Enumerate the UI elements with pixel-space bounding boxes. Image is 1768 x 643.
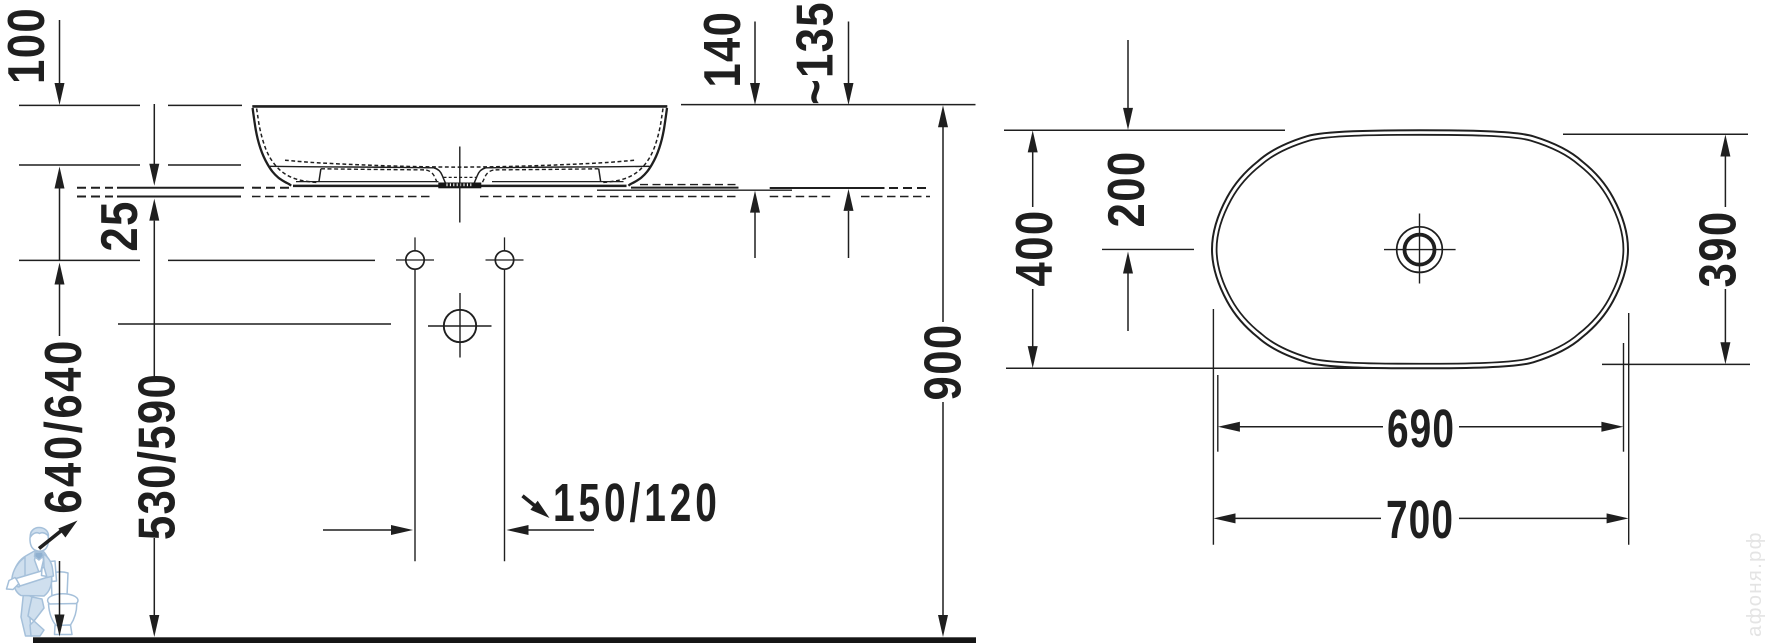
plan drain crosshair <box>1384 249 1456 251</box>
plan view basin outer outline <box>1212 130 1628 368</box>
countertop top surface left <box>117 187 244 189</box>
dimension 140 <box>754 22 756 84</box>
dimension 200 reference line <box>1102 248 1194 250</box>
countertop top surface right <box>631 187 739 189</box>
basin outer wall left <box>253 108 292 186</box>
svg-text:900: 900 <box>915 324 972 401</box>
countertop bottom surface left <box>117 196 241 198</box>
svg-text:25: 25 <box>92 200 149 251</box>
basin inner wall right (hidden) <box>602 109 663 183</box>
faucet holes centerline datum <box>19 259 140 261</box>
basin top rim edge <box>252 105 667 108</box>
plan bottom reference line <box>1006 367 1395 369</box>
basin inner wall left (hidden) <box>257 109 318 183</box>
faucet hole extension left <box>414 269 416 561</box>
drain hole front view <box>444 310 476 342</box>
dimension 25 <box>153 104 155 165</box>
plan view basin inner rim <box>1217 135 1624 364</box>
svg-text:530/590: 530/590 <box>129 373 186 540</box>
svg-text:640/640: 640/640 <box>36 338 93 514</box>
dimension 530/590 <box>149 199 159 221</box>
basin interior bottom surface (hidden) <box>285 160 635 167</box>
drain recess step left (visible) <box>434 168 445 183</box>
svg-text:140: 140 <box>695 11 752 88</box>
foot front edge left <box>319 169 321 182</box>
plan drain outer circle <box>1397 227 1443 273</box>
faucet hole right <box>495 251 513 269</box>
dimension 690 extension lines <box>1217 375 1219 452</box>
dimension 100 <box>59 20 61 85</box>
dimension 150/120 <box>323 529 392 531</box>
faucet hole extension right <box>504 269 506 561</box>
basin foot top line <box>296 181 439 183</box>
countertop hidden aux right <box>640 184 738 186</box>
watermark mascot plumber with toilet <box>7 528 79 637</box>
drain recess step right (visible) <box>474 168 485 183</box>
drain hole centerline datum <box>118 323 391 325</box>
countertop bottom dashes right <box>770 196 831 198</box>
plan drain inner circle <box>1405 235 1435 265</box>
plan right bottom reference line <box>1602 363 1750 365</box>
plan right top reference line <box>1563 133 1748 135</box>
foot inner edge (hidden) <box>321 169 426 170</box>
svg-text:150/120: 150/120 <box>553 472 721 533</box>
dimension 900 <box>938 105 948 127</box>
svg-text:390: 390 <box>1690 211 1747 288</box>
countertop surface far right <box>770 187 885 189</box>
foot front edge right <box>599 169 601 182</box>
drain recess step right (hidden) <box>482 170 493 182</box>
dimension 700 <box>1214 513 1236 523</box>
dimension 690 <box>1218 422 1240 432</box>
faucet hole left <box>406 251 424 269</box>
svg-text:100: 100 <box>0 7 56 84</box>
svg-text:690: 690 <box>1387 398 1455 459</box>
dimension 640/640 upper arrow <box>55 167 65 189</box>
svg-text:400: 400 <box>1007 210 1064 287</box>
dimension 640/640 diagonal arrow <box>39 529 64 549</box>
floor line <box>33 637 976 643</box>
dimension 200 <box>1127 40 1129 109</box>
plan top reference line <box>1004 129 1285 131</box>
countertop underside thin line right <box>597 189 792 191</box>
svg-text:~135: ~135 <box>787 1 844 105</box>
countertop hidden line under basin <box>252 196 433 198</box>
dimension 700 extension lines <box>1212 309 1214 545</box>
dimension ~135 <box>848 22 850 84</box>
svg-text:афоня.рф: афоня.рф <box>1743 531 1766 637</box>
drain recess step left (hidden) <box>426 170 437 182</box>
basin outer wall right <box>628 108 667 186</box>
drain waste fitting <box>438 183 481 189</box>
reference line A (basin rim level) <box>19 104 140 106</box>
reference line B (640/640 datum) <box>19 164 140 166</box>
drain trap bottom (hidden) <box>444 176 477 178</box>
basin bottom contact line <box>293 185 627 188</box>
svg-text:200: 200 <box>1099 151 1156 228</box>
basin underside visible edge <box>270 166 434 168</box>
svg-text:700: 700 <box>1386 489 1454 550</box>
basin centerline <box>459 147 461 223</box>
dimension 640/640 <box>55 263 65 285</box>
dimension 400 <box>1028 130 1038 152</box>
dimension 390 <box>1720 135 1730 157</box>
